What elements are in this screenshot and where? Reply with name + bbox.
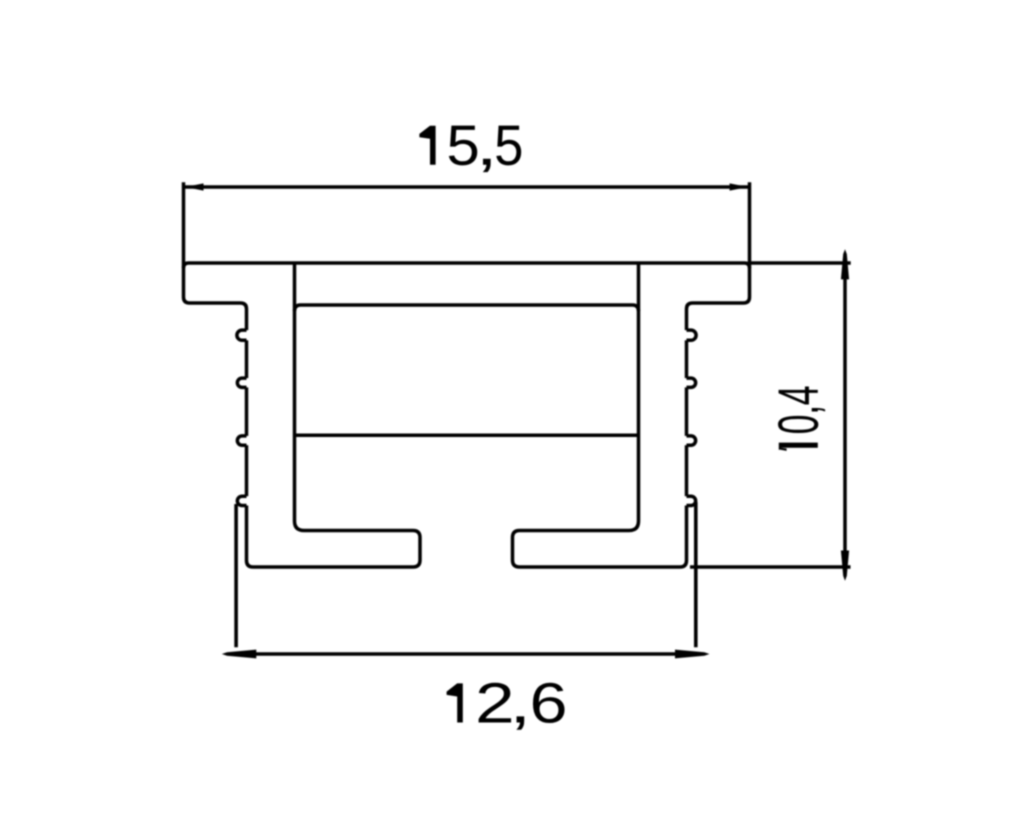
foot bottom extension to 10.4 dimension [690,565,851,569]
left leg segment 4 [245,445,249,496]
rib 2 left [237,378,246,387]
inner cavity top line with filleted ends [295,305,639,311]
flange right edge + right shoulder + upper right leg segment [687,182,750,330]
flange left edge + left shoulder + upper left leg segment [184,182,247,330]
flange underside extension to 10.4 dimension [750,261,851,265]
right leg segment 3 [685,387,689,436]
10.4 top arrowhead [841,249,849,279]
rib 1 right [687,330,697,340]
flange underside line with end hooks [184,263,750,268]
12.6 right extension line [694,502,698,647]
rib 4 left [237,496,246,505]
right leg lower segment + right foot + right inner wall [513,262,687,567]
12.6 dimension line shaft [252,652,679,656]
dimension text 12,6 [447,683,565,730]
rib 3 right [687,436,696,445]
rib 3 left [237,436,246,445]
12.6 left arrowhead [222,650,256,659]
15.5 right arrowhead [730,183,748,190]
left leg segment 2 [245,340,249,378]
right leg segment 4 [685,445,689,496]
12.6 left extension line [234,504,238,647]
right leg segment 2 [685,340,689,378]
rib 4 right [687,496,696,505]
dimension text 10,4 (rotated) [778,386,825,450]
10.4 bottom arrowhead [841,551,849,581]
10.4 dimension line shaft [843,277,847,552]
dimension text 15,5 [419,126,521,173]
left leg segment 3 [245,387,249,436]
flange top edge / 15.5 dimension line [184,185,750,189]
15.5 left arrowhead [185,183,203,190]
12.6 right arrowhead [675,650,710,659]
inner middle line [295,433,639,437]
rib 1 left [237,330,247,340]
left leg lower segment + left foot + left inner wall [247,262,421,567]
rib 2 right [687,378,696,387]
